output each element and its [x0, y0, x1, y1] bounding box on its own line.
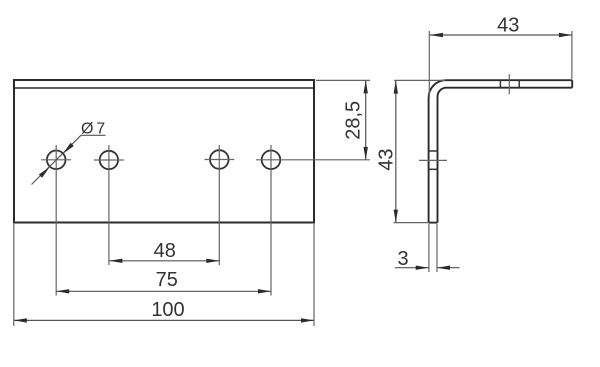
side view bottom cap [429, 222, 438, 224]
arrow right 43 bottom [394, 210, 398, 223]
svg-text:48: 48 [154, 240, 176, 262]
front view plate outline [14, 80, 314, 223]
arrow 100 left [14, 318, 27, 322]
arrow right 43 top [394, 81, 398, 94]
dimension line 3 right segment [437, 267, 460, 269]
witness line top right of plate [316, 79, 370, 81]
svg-text:3: 3 [397, 248, 408, 270]
dimension line 100 [14, 319, 314, 321]
diameter leader underline [81, 134, 106, 136]
side view leg hole edge upper [429, 150, 438, 152]
front view bend edge line [14, 87, 314, 89]
hole 1 circle [47, 151, 66, 170]
hole 4 centerline vertical [270, 145, 272, 296]
arrow 48 right [206, 259, 219, 263]
hole 4 circle [262, 151, 281, 170]
extension line plate left edge [13, 223, 15, 327]
dimension line 75 [56, 290, 271, 292]
witness line right 43 top [394, 79, 445, 81]
dimension line 28,5 [365, 80, 367, 159]
side view outer profile [429, 80, 573, 222]
svg-text:28,5: 28,5 [343, 101, 365, 140]
side view right cap [571, 80, 573, 88]
dimension line 48 [109, 260, 219, 262]
witness line top 43 right [571, 31, 573, 79]
arrow 48 left [109, 259, 122, 263]
side view leg hole centerline [419, 159, 447, 161]
dimension line right 43 [395, 81, 397, 223]
hole 3 circle [210, 150, 229, 169]
dimension line top 43 [430, 34, 572, 36]
diameter leader arrow lower [39, 167, 50, 178]
svg-text:43: 43 [497, 15, 519, 37]
hole 1 centerlines [41, 159, 71, 161]
side view arm hole centerline [508, 74, 510, 94]
hole 2 centerlines [94, 159, 124, 161]
side view inner profile [438, 88, 573, 223]
witness line right 43 bottom [394, 222, 429, 224]
arrow 28,5 bottom [364, 147, 368, 160]
diameter leader line through hole 1 [32, 135, 82, 184]
extension line thickness left [428, 224, 430, 272]
arrow 75 left [56, 289, 69, 293]
witness line top 43 left [428, 31, 430, 98]
diameter leader arrow upper [63, 143, 74, 154]
svg-text:43: 43 [375, 148, 397, 170]
arrow 100 right [301, 318, 314, 322]
svg-text:100: 100 [151, 299, 184, 321]
arrow top 43 left [430, 33, 443, 37]
extension line thickness right [436, 224, 438, 272]
arrow 3 left [416, 266, 429, 270]
arrow 3 right [437, 266, 450, 270]
svg-text:75: 75 [156, 269, 178, 291]
arrow top 43 right [559, 33, 572, 37]
hole 3 centerlines [205, 159, 235, 161]
hole 4 centerline horizontal merged with 28,5 witness line [256, 159, 370, 161]
extension line plate right edge [313, 223, 315, 327]
hole 2 circle [100, 151, 118, 169]
arrow 75 right [258, 289, 271, 293]
side view leg hole edge lower [429, 168, 438, 170]
side view arm hole edge left [499, 80, 501, 88]
arrow 28,5 top [364, 80, 368, 93]
svg-text:Ø7: Ø7 [81, 120, 105, 137]
dimension line 3 left segment [395, 267, 429, 269]
side view arm hole edge right [518, 80, 520, 88]
